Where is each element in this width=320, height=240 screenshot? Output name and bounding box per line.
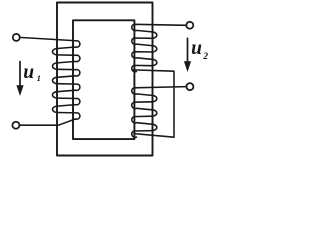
secondary winding lower section (right leg)	[132, 87, 187, 138]
primary winding L1 (left leg)	[20, 37, 80, 119]
label u1	[23, 62, 41, 84]
terminal mid-right	[186, 83, 193, 90]
wire: primary bottom lead	[19, 119, 75, 125]
terminal bottom-left	[12, 122, 19, 129]
terminal top-right	[186, 22, 193, 29]
core inner rectangle (window)	[73, 20, 134, 139]
core outer rectangle	[57, 3, 153, 156]
terminal top-left	[13, 34, 20, 41]
label u2	[191, 38, 208, 62]
arrow u2 (voltage reference, down)	[184, 38, 191, 72]
arrow u1 (voltage reference, down)	[16, 62, 23, 96]
secondary winding upper section (right leg)	[132, 24, 187, 71]
wire: series link between upper and lower secondary sections	[133, 70, 174, 137]
